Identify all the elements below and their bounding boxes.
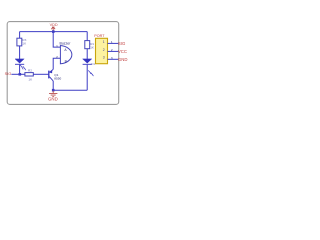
- svg-text:VCC: VCC: [118, 49, 127, 54]
- ground symbol: [49, 91, 57, 97]
- schematic frame: [7, 22, 119, 105]
- LED indicator (left): [15, 59, 24, 63]
- wire VDD rail: [20, 31, 88, 33]
- svg-text:SIG: SIG: [5, 71, 12, 76]
- transistor Q1: [49, 69, 53, 81]
- wire rail to R3: [19, 32, 21, 39]
- wire R2 to Q1 base: [33, 73, 48, 75]
- svg-text:VDD: VDD: [50, 23, 58, 27]
- wire SIG to R2: [11, 73, 25, 75]
- node junction VDD rail: [52, 30, 55, 33]
- svg-text:1: 1: [56, 44, 58, 48]
- node junction SIG/LED: [19, 73, 22, 76]
- svg-text:2: 2: [103, 48, 105, 52]
- wire R1 to D1: [86, 49, 88, 59]
- svg-text:1K: 1K: [22, 42, 27, 46]
- resistor R2: [25, 73, 33, 76]
- svg-text:PORT: PORT: [94, 34, 105, 38]
- resistor R3: [17, 38, 22, 46]
- wire LED to SIG line: [19, 65, 21, 75]
- svg-text:R2: R2: [28, 68, 32, 72]
- wire rail junction to buzzer pin1: [53, 32, 60, 47]
- resistor R1: [85, 41, 90, 49]
- svg-text:2: 2: [111, 48, 113, 52]
- svg-text:8550: 8550: [54, 77, 61, 81]
- svg-text:1K: 1K: [28, 78, 33, 82]
- svg-text:Buzzer: Buzzer: [60, 42, 72, 46]
- node junction Q1/GND rail: [52, 89, 55, 92]
- connector body: [96, 38, 108, 63]
- svg-text:1: 1: [111, 40, 113, 44]
- svg-text:3: 3: [103, 56, 105, 60]
- svg-text:2: 2: [56, 55, 58, 59]
- svg-text:D1: D1: [91, 62, 95, 66]
- svg-text:SIG: SIG: [118, 41, 126, 46]
- svg-text:1: 1: [103, 40, 105, 44]
- svg-text:GND: GND: [118, 57, 128, 62]
- power VDD symbol: [51, 27, 55, 32]
- wire buzzer pin2 to Q1: [53, 58, 60, 69]
- svg-text:1K: 1K: [90, 45, 95, 49]
- svg-text:GND: GND: [48, 97, 58, 102]
- svg-text:3: 3: [111, 56, 113, 60]
- wire R3 to LED: [19, 46, 21, 59]
- LED D1: [83, 59, 92, 63]
- wire Q1 collector to GND rail: [52, 81, 54, 90]
- wire D1 to GND rail: [86, 65, 88, 91]
- wire rail to R1: [86, 32, 88, 41]
- wire GND rail: [53, 89, 87, 91]
